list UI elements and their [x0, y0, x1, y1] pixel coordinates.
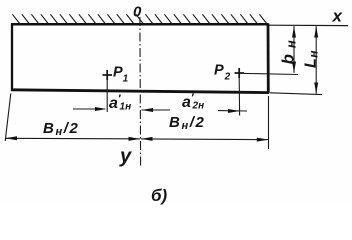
plate top edge (wall line)	[11, 23, 269, 26]
x axis	[269, 24, 349, 26]
P2 horizontal extension line	[244, 73, 298, 74]
b_n bottom arrow	[292, 62, 296, 73]
plate bottom edge	[11, 90, 269, 93]
svg-text:б): б)	[151, 186, 168, 205]
dimension a'1n tail and arrow	[73, 108, 105, 110]
right extension line	[268, 96, 270, 149]
L_n top arrow	[314, 26, 318, 37]
bottom-right thin extension line	[270, 93, 322, 95]
dimension a'2n left arrow	[142, 109, 171, 111]
left extension line	[5, 94, 11, 142]
dimension Bn/2 left line	[6, 137, 141, 140]
dimension b_n vertical line	[293, 26, 295, 73]
svg-text:x: x	[332, 7, 344, 26]
P1 extension line	[106, 80, 108, 112]
point P1 cross	[103, 70, 113, 80]
plate left edge	[11, 24, 13, 92]
b_n top arrow	[292, 26, 296, 37]
dimension L_n vertical line	[315, 26, 317, 94]
svg-text:0: 0	[133, 4, 142, 21]
wall hatching	[12, 14, 267, 24]
P2 vertical extension line	[238, 78, 240, 116]
point P2 cross	[235, 68, 245, 78]
L_n bottom arrow	[314, 83, 318, 94]
svg-text:у: у	[119, 146, 132, 168]
centerline (y axis), dash-dot	[139, 17, 142, 168]
plate right edge	[267, 24, 270, 94]
dimension Bn/2 right line	[141, 138, 268, 141]
dimension a'2n right segment and arrow	[218, 110, 247, 112]
